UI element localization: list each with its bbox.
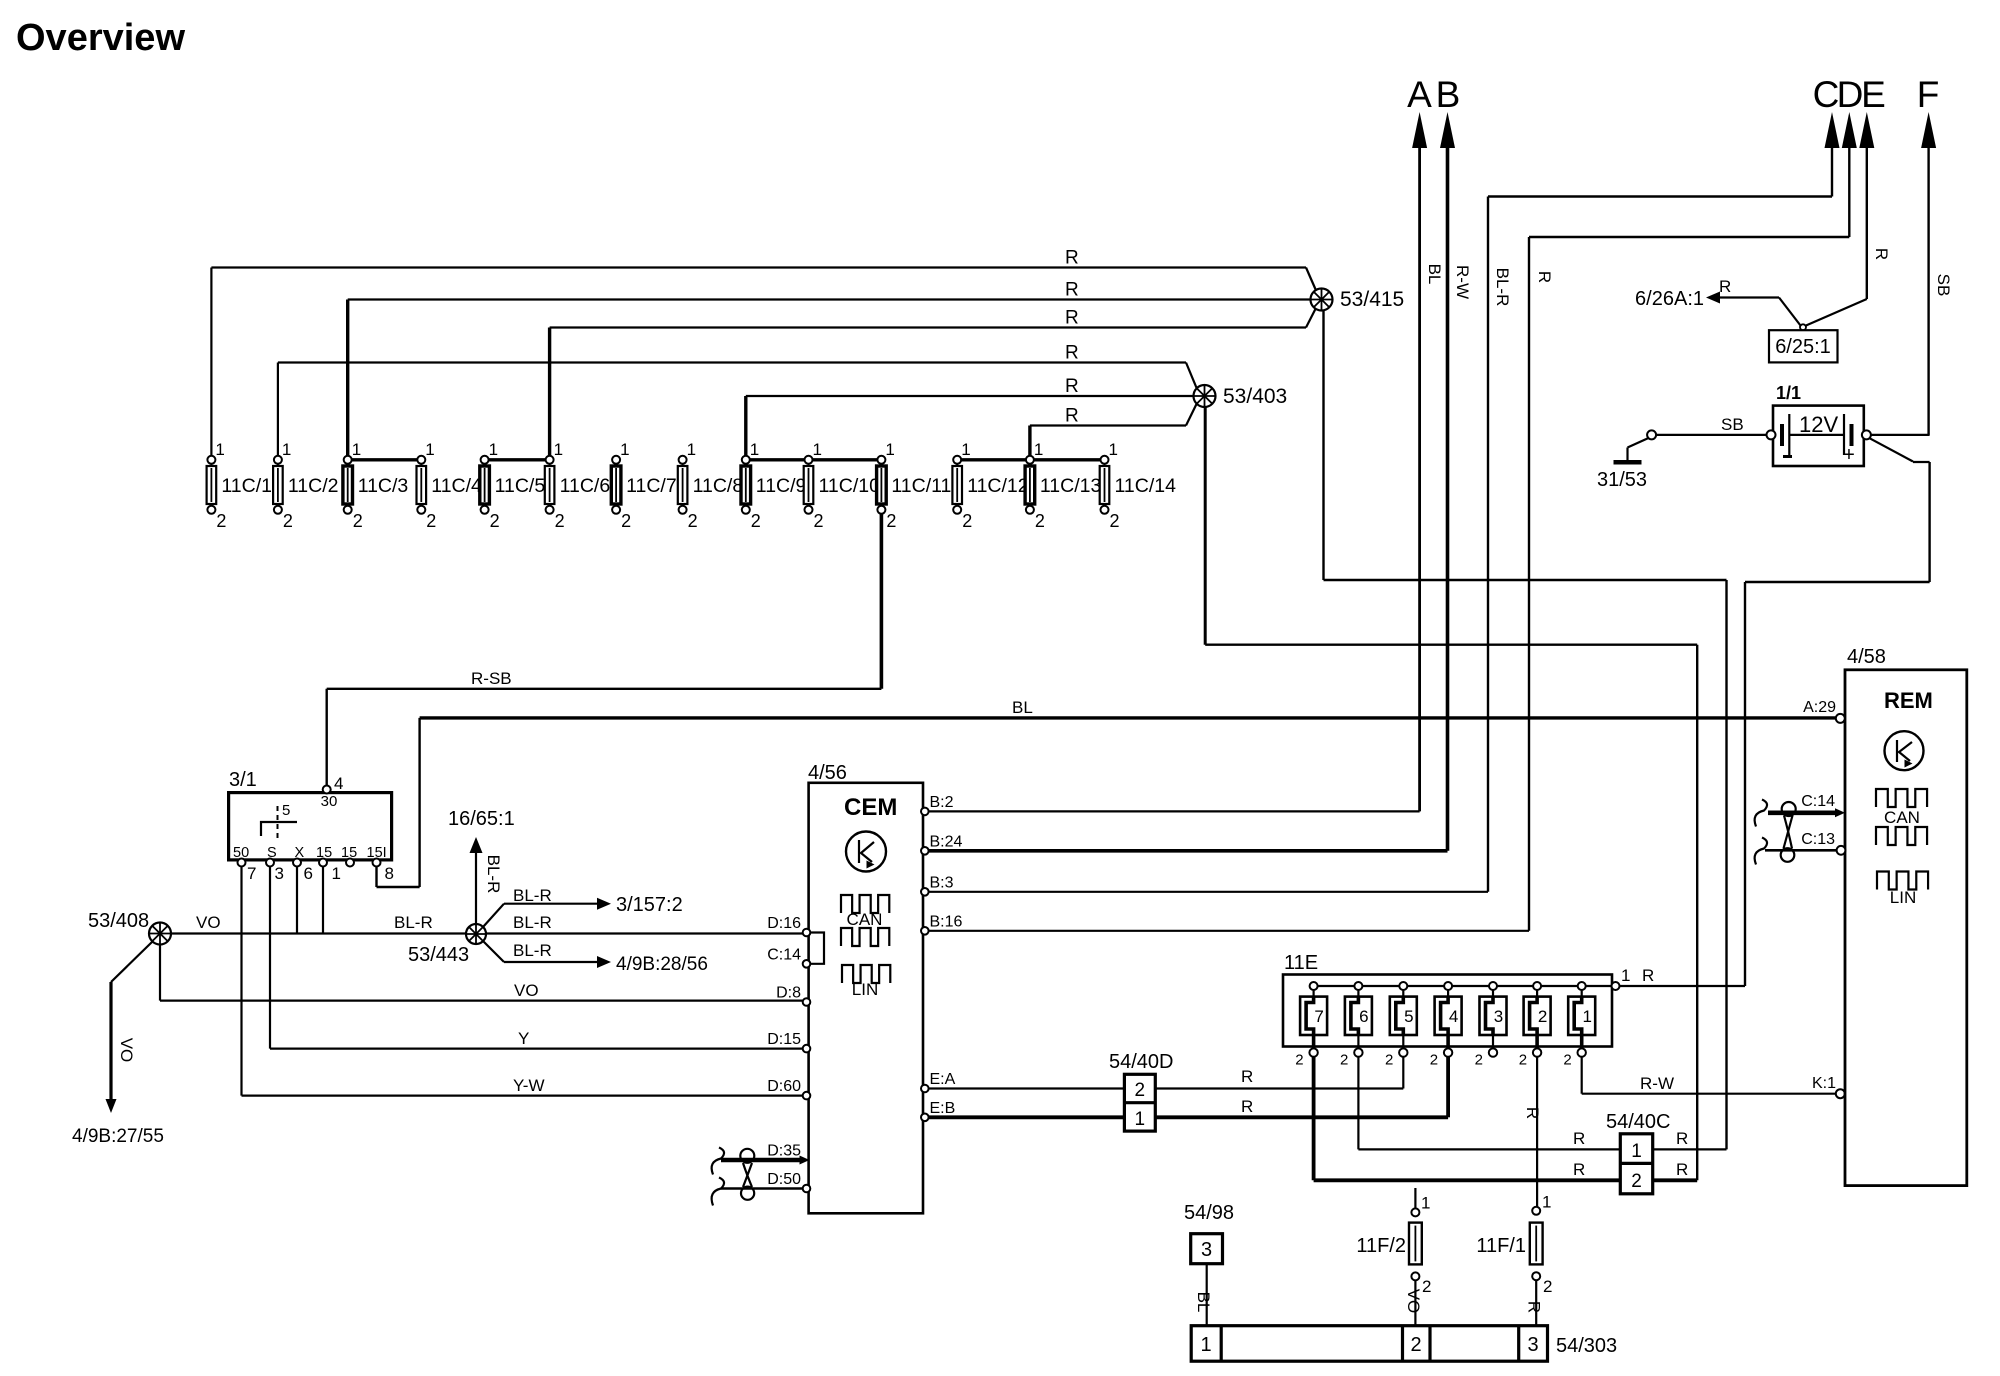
svg-text:1: 1 bbox=[750, 440, 759, 459]
svg-text:2: 2 bbox=[688, 511, 698, 531]
svg-text:2: 2 bbox=[621, 511, 631, 531]
svg-text:2: 2 bbox=[1563, 1052, 1571, 1069]
svg-text:1/1: 1/1 bbox=[1776, 383, 1801, 403]
svg-text:1: 1 bbox=[1621, 966, 1630, 985]
svg-text:11C/6: 11C/6 bbox=[560, 475, 611, 497]
svg-text:3: 3 bbox=[1201, 1239, 1212, 1261]
svg-text:R: R bbox=[1065, 376, 1079, 397]
svg-text:1: 1 bbox=[813, 440, 822, 459]
svg-text:11F/2: 11F/2 bbox=[1356, 1235, 1406, 1257]
svg-text:R: R bbox=[1872, 248, 1891, 260]
svg-text:2: 2 bbox=[1410, 1334, 1421, 1356]
svg-text:R: R bbox=[1065, 343, 1079, 364]
svg-text:11C/1: 11C/1 bbox=[221, 475, 272, 497]
svg-text:53/443: 53/443 bbox=[408, 944, 469, 966]
svg-text:REM: REM bbox=[1884, 688, 1933, 713]
svg-text:1: 1 bbox=[554, 440, 563, 459]
svg-text:4/56: 4/56 bbox=[808, 762, 847, 784]
svg-text:B:2: B:2 bbox=[930, 794, 954, 811]
svg-text:31/53: 31/53 bbox=[1597, 469, 1647, 491]
svg-text:30: 30 bbox=[321, 793, 338, 810]
svg-text:R: R bbox=[1573, 1129, 1585, 1148]
svg-text:VO: VO bbox=[514, 981, 539, 1000]
svg-text:BL-R: BL-R bbox=[1493, 268, 1512, 307]
svg-text:2: 2 bbox=[353, 511, 363, 531]
svg-text:R: R bbox=[1241, 1097, 1253, 1116]
svg-text:2: 2 bbox=[1295, 1052, 1303, 1069]
svg-text:Y: Y bbox=[518, 1029, 529, 1048]
svg-text:B: B bbox=[1436, 74, 1461, 115]
svg-text:BL: BL bbox=[1194, 1292, 1213, 1313]
svg-text:VO: VO bbox=[117, 1038, 136, 1063]
svg-text:1: 1 bbox=[620, 440, 629, 459]
svg-text:2: 2 bbox=[1135, 1080, 1146, 1101]
svg-text:SB: SB bbox=[1721, 415, 1744, 434]
svg-text:C:14: C:14 bbox=[767, 946, 801, 963]
svg-text:1: 1 bbox=[961, 440, 970, 459]
svg-text:E:A: E:A bbox=[930, 1071, 956, 1088]
svg-text:3: 3 bbox=[275, 864, 284, 883]
svg-text:R: R bbox=[1573, 1160, 1585, 1179]
svg-text:54/303: 54/303 bbox=[1556, 1335, 1617, 1357]
svg-text:11C/5: 11C/5 bbox=[495, 475, 546, 497]
svg-text:D:8: D:8 bbox=[776, 985, 801, 1002]
svg-text:2: 2 bbox=[1035, 511, 1045, 531]
svg-text:Overview: Overview bbox=[16, 17, 185, 59]
svg-text:VO: VO bbox=[1404, 1289, 1423, 1314]
svg-text:2: 2 bbox=[1538, 1007, 1547, 1026]
svg-text:6/25:1: 6/25:1 bbox=[1775, 336, 1831, 358]
svg-text:11E: 11E bbox=[1284, 952, 1318, 974]
svg-text:11C/9: 11C/9 bbox=[756, 475, 807, 497]
svg-text:2: 2 bbox=[1340, 1052, 1348, 1069]
svg-text:A:29: A:29 bbox=[1803, 699, 1836, 716]
svg-text:R-W: R-W bbox=[1453, 265, 1472, 299]
svg-text:2: 2 bbox=[962, 511, 972, 531]
svg-text:2: 2 bbox=[1543, 1277, 1552, 1296]
svg-text:D:50: D:50 bbox=[767, 1171, 801, 1188]
svg-text:8: 8 bbox=[385, 864, 394, 883]
svg-text:D:60: D:60 bbox=[767, 1078, 801, 1095]
svg-text:5: 5 bbox=[1404, 1007, 1413, 1026]
svg-text:R: R bbox=[1523, 1107, 1542, 1119]
svg-text:SB: SB bbox=[1934, 274, 1953, 297]
svg-text:R-W: R-W bbox=[1640, 1074, 1674, 1093]
svg-text:1: 1 bbox=[1200, 1334, 1211, 1356]
svg-text:R: R bbox=[1065, 406, 1079, 427]
svg-text:D:35: D:35 bbox=[767, 1143, 801, 1160]
svg-text:6/26A:1: 6/26A:1 bbox=[1635, 288, 1704, 310]
svg-text:3/1: 3/1 bbox=[229, 769, 257, 791]
svg-text:Y-W: Y-W bbox=[513, 1076, 545, 1095]
svg-text:1: 1 bbox=[885, 440, 894, 459]
svg-text:D:15: D:15 bbox=[767, 1031, 801, 1048]
svg-text:6: 6 bbox=[304, 864, 313, 883]
svg-text:BL-R: BL-R bbox=[484, 855, 503, 894]
svg-text:BL: BL bbox=[1425, 264, 1444, 285]
svg-text:+: + bbox=[1843, 444, 1855, 466]
svg-text:4/58: 4/58 bbox=[1847, 646, 1886, 668]
svg-text:BL-R: BL-R bbox=[513, 941, 552, 960]
svg-text:R: R bbox=[1676, 1129, 1688, 1148]
svg-text:4: 4 bbox=[334, 774, 343, 793]
svg-text:11C/4: 11C/4 bbox=[431, 475, 482, 497]
svg-text:LIN: LIN bbox=[852, 980, 878, 999]
svg-text:F: F bbox=[1917, 74, 1940, 115]
svg-text:R: R bbox=[1642, 966, 1654, 985]
svg-text:54/40D: 54/40D bbox=[1109, 1051, 1174, 1073]
svg-text:1: 1 bbox=[1582, 1007, 1591, 1026]
svg-text:1: 1 bbox=[1034, 440, 1043, 459]
svg-text:11C/8: 11C/8 bbox=[693, 475, 744, 497]
svg-text:E: E bbox=[1861, 74, 1886, 115]
svg-text:3/157:2: 3/157:2 bbox=[616, 894, 683, 916]
svg-text:54/40C: 54/40C bbox=[1606, 1111, 1671, 1133]
svg-text:2: 2 bbox=[814, 511, 824, 531]
svg-text:R: R bbox=[1065, 280, 1079, 301]
svg-text:K:1: K:1 bbox=[1812, 1075, 1836, 1092]
svg-text:R: R bbox=[1525, 1301, 1544, 1313]
svg-text:2: 2 bbox=[283, 511, 293, 531]
svg-text:1: 1 bbox=[282, 440, 291, 459]
svg-text:E:B: E:B bbox=[930, 1100, 956, 1117]
svg-text:3: 3 bbox=[1527, 1334, 1538, 1356]
svg-text:B:24: B:24 bbox=[930, 833, 963, 850]
svg-text:R: R bbox=[1676, 1160, 1688, 1179]
svg-text:1: 1 bbox=[1109, 440, 1118, 459]
svg-text:1: 1 bbox=[332, 864, 341, 883]
svg-text:3: 3 bbox=[1494, 1007, 1503, 1026]
svg-text:R: R bbox=[1535, 271, 1554, 283]
svg-text:2: 2 bbox=[1110, 511, 1120, 531]
svg-text:2: 2 bbox=[1475, 1052, 1483, 1069]
svg-text:R: R bbox=[1719, 277, 1731, 296]
svg-text:11C/3: 11C/3 bbox=[358, 475, 409, 497]
svg-text:4/9B:27/55: 4/9B:27/55 bbox=[72, 1126, 164, 1147]
svg-text:CAN: CAN bbox=[1884, 808, 1920, 827]
svg-text:2: 2 bbox=[555, 511, 565, 531]
svg-text:C: C bbox=[1813, 74, 1840, 115]
svg-text:4/9B:28/56: 4/9B:28/56 bbox=[616, 954, 708, 975]
svg-text:11C/2: 11C/2 bbox=[288, 475, 339, 497]
svg-text:12V: 12V bbox=[1799, 412, 1838, 437]
svg-text:R: R bbox=[1065, 248, 1079, 269]
svg-text:D:16: D:16 bbox=[767, 915, 801, 932]
svg-text:11F/1: 11F/1 bbox=[1476, 1235, 1526, 1257]
svg-text:1: 1 bbox=[1542, 1193, 1551, 1212]
svg-text:2: 2 bbox=[1430, 1052, 1438, 1069]
svg-text:1: 1 bbox=[489, 440, 498, 459]
svg-text:16/65:1: 16/65:1 bbox=[448, 808, 515, 830]
svg-text:53/403: 53/403 bbox=[1223, 385, 1287, 408]
svg-text:CAN: CAN bbox=[847, 910, 883, 929]
svg-text:11C/10: 11C/10 bbox=[819, 475, 881, 497]
svg-text:7: 7 bbox=[1314, 1007, 1323, 1026]
svg-text:11C/14: 11C/14 bbox=[1115, 475, 1177, 497]
svg-text:53/415: 53/415 bbox=[1340, 288, 1404, 311]
svg-text:CEM: CEM bbox=[844, 794, 897, 821]
svg-text:1: 1 bbox=[215, 440, 224, 459]
svg-text:11C/13: 11C/13 bbox=[1040, 475, 1101, 497]
svg-text:D: D bbox=[1837, 74, 1864, 115]
svg-text:C:13: C:13 bbox=[1801, 831, 1835, 848]
svg-text:1: 1 bbox=[1421, 1194, 1430, 1213]
svg-text:2: 2 bbox=[1385, 1052, 1393, 1069]
svg-text:BL-R: BL-R bbox=[394, 913, 433, 932]
svg-text:B:16: B:16 bbox=[930, 913, 963, 930]
svg-text:2: 2 bbox=[751, 511, 761, 531]
svg-text:11C/12: 11C/12 bbox=[967, 475, 1028, 497]
svg-text:LIN: LIN bbox=[1890, 888, 1916, 907]
svg-text:R: R bbox=[1065, 308, 1079, 329]
svg-text:2: 2 bbox=[886, 511, 896, 531]
svg-text:1: 1 bbox=[1135, 1109, 1146, 1130]
svg-text:BL-R: BL-R bbox=[513, 913, 552, 932]
svg-text:11C/11: 11C/11 bbox=[891, 475, 951, 497]
svg-text:C:14: C:14 bbox=[1801, 793, 1835, 810]
svg-text:2: 2 bbox=[216, 511, 226, 531]
svg-text:1: 1 bbox=[425, 440, 434, 459]
svg-text:4: 4 bbox=[1449, 1007, 1458, 1026]
svg-text:2: 2 bbox=[426, 511, 436, 531]
svg-text:2: 2 bbox=[1631, 1171, 1642, 1192]
svg-text:R: R bbox=[1241, 1067, 1253, 1086]
svg-text:VO: VO bbox=[196, 913, 221, 932]
svg-text:7: 7 bbox=[247, 864, 256, 883]
svg-text:6: 6 bbox=[1359, 1007, 1368, 1026]
svg-text:54/98: 54/98 bbox=[1184, 1202, 1234, 1224]
svg-text:11C/7: 11C/7 bbox=[626, 475, 677, 497]
svg-text:BL: BL bbox=[1012, 698, 1033, 717]
svg-text:2: 2 bbox=[490, 511, 500, 531]
svg-text:R-SB: R-SB bbox=[471, 669, 512, 688]
svg-text:1: 1 bbox=[1631, 1141, 1642, 1162]
svg-text:B:3: B:3 bbox=[930, 874, 954, 891]
svg-text:53/408: 53/408 bbox=[88, 910, 149, 932]
svg-text:5: 5 bbox=[282, 802, 290, 819]
svg-text:BL-R: BL-R bbox=[513, 886, 552, 905]
svg-text:2: 2 bbox=[1519, 1052, 1527, 1069]
svg-text:1: 1 bbox=[352, 440, 361, 459]
svg-text:A: A bbox=[1407, 74, 1432, 115]
svg-text:1: 1 bbox=[687, 440, 696, 459]
